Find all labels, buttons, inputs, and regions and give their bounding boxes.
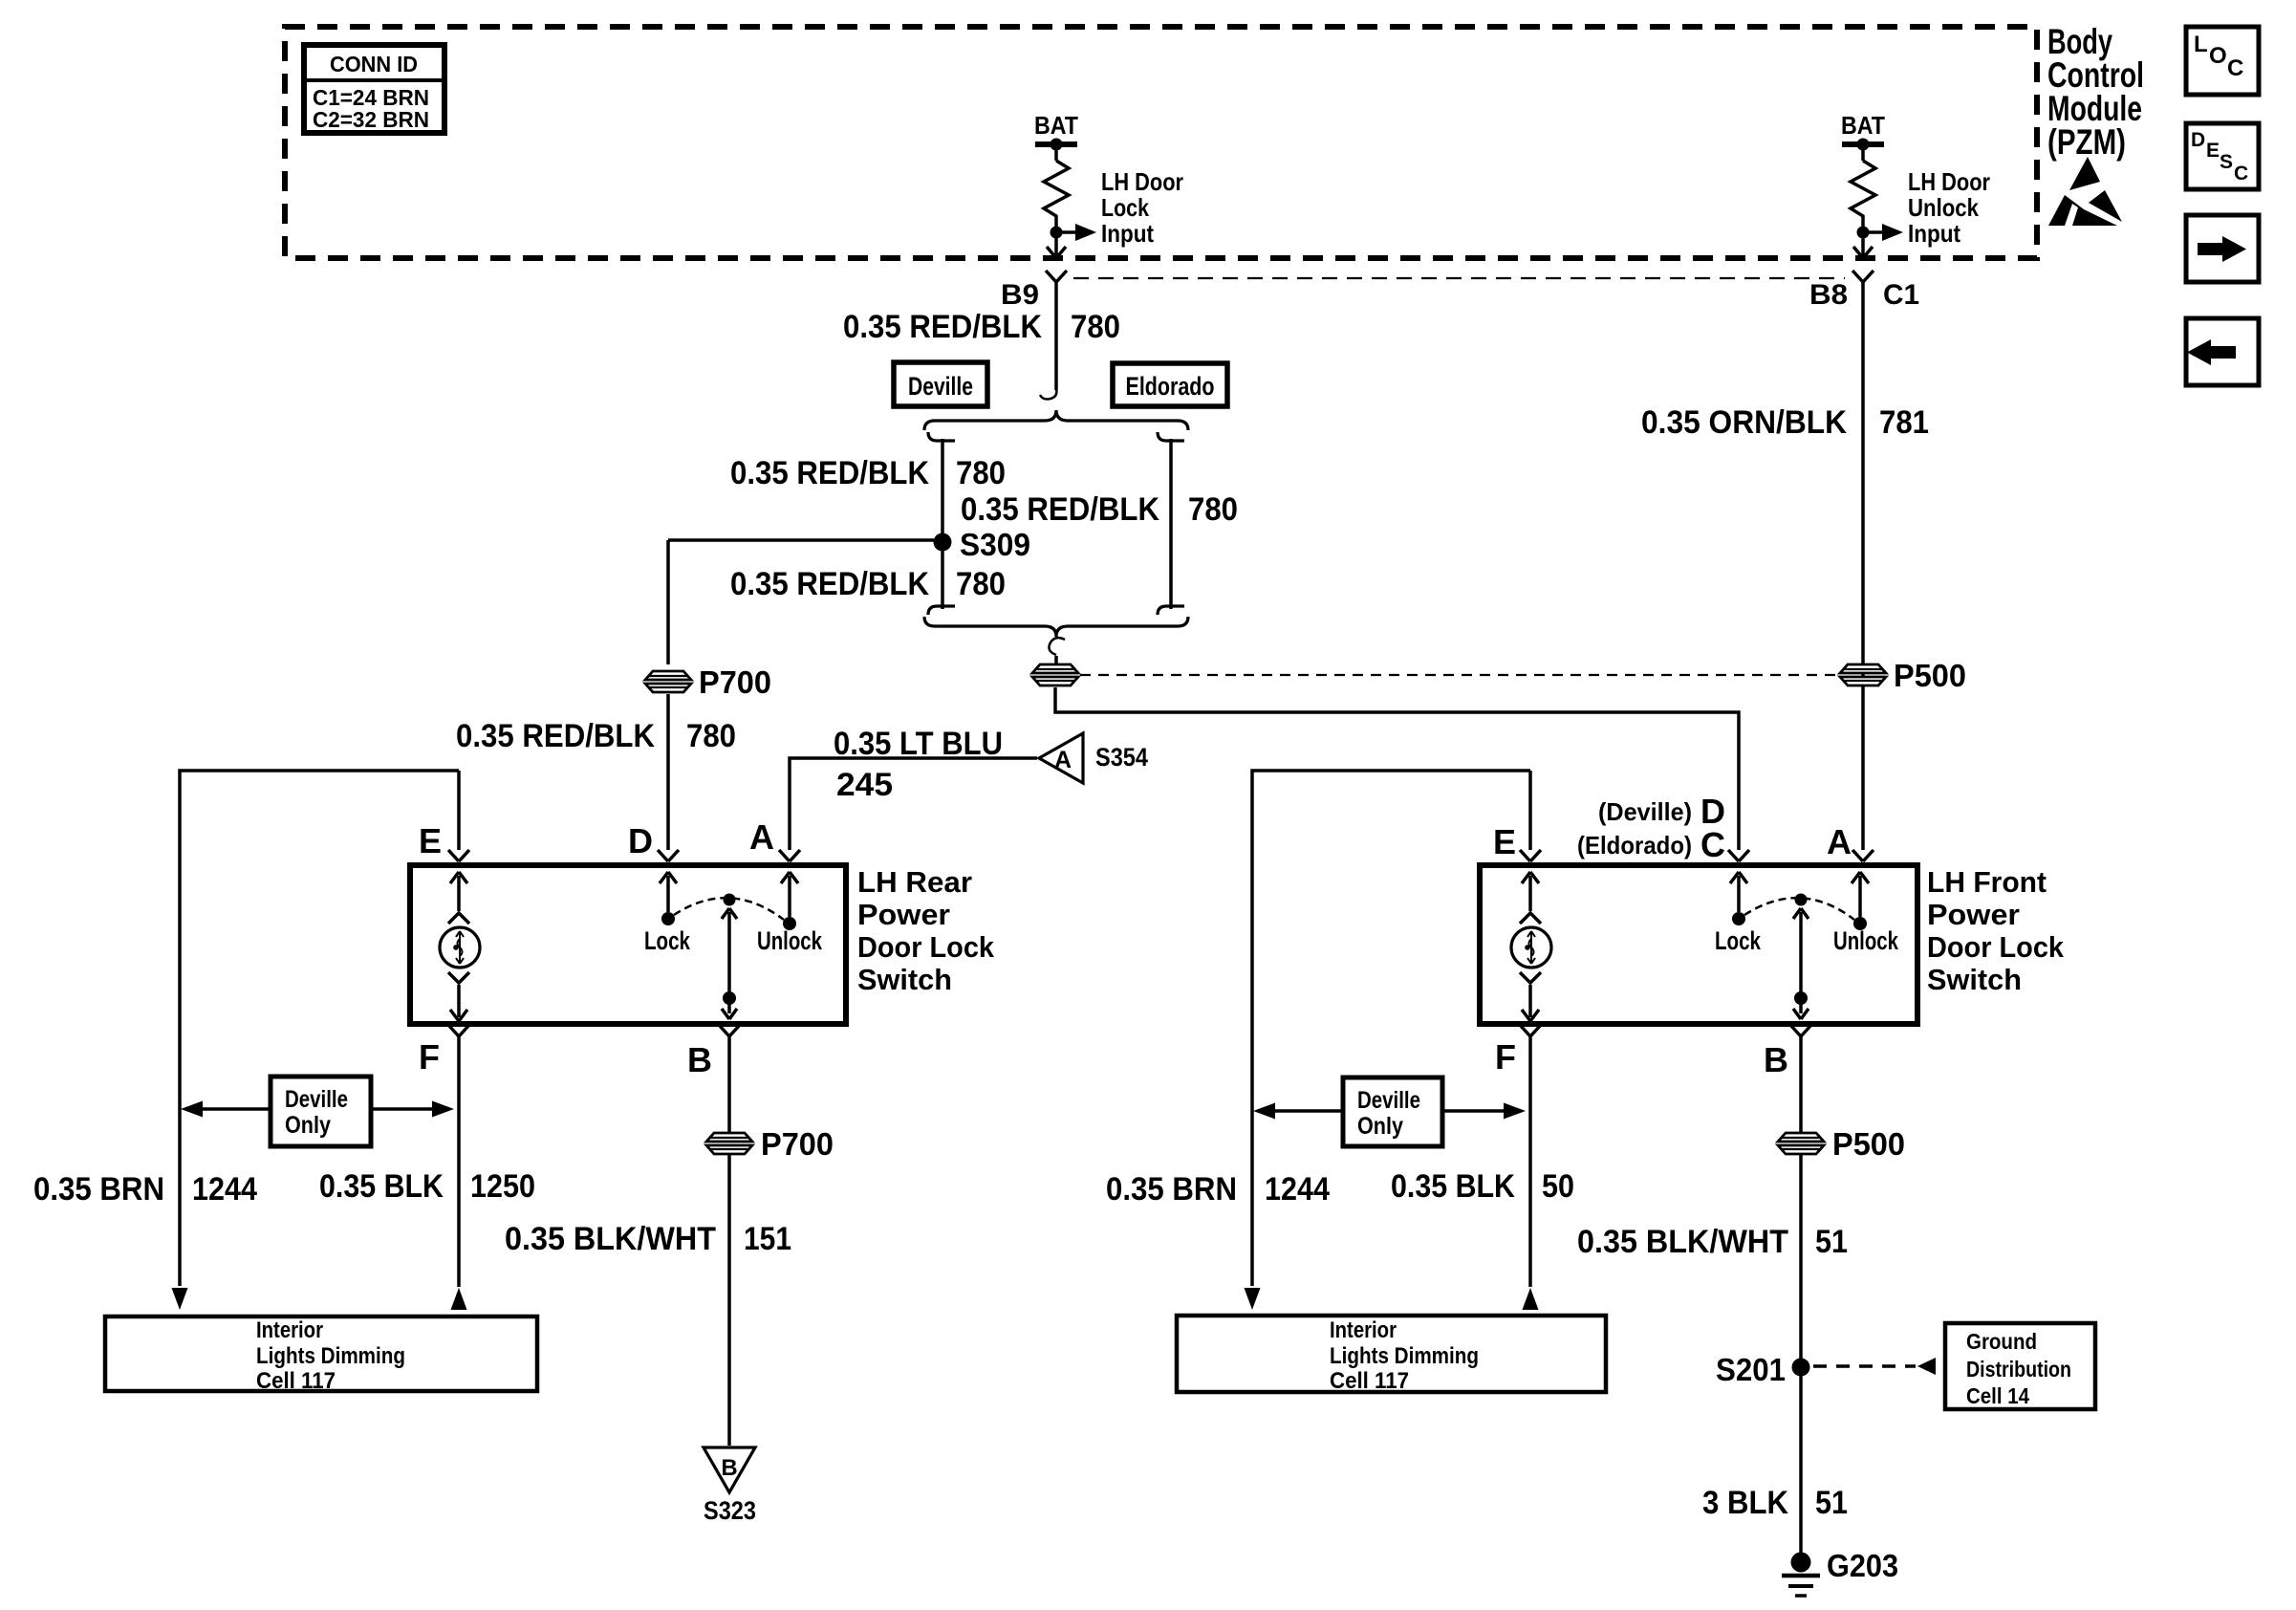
svg-text:S309: S309 bbox=[960, 527, 1030, 562]
wire from center connector down and right to front switch pin D/C bbox=[1055, 687, 1739, 850]
top option brace bbox=[924, 410, 1188, 430]
LH Rear switch: pin E female connector bbox=[448, 850, 469, 861]
rear pin F wire (0.35 BLK 1250) bbox=[457, 1036, 461, 1287]
svg-text:E: E bbox=[1493, 822, 1516, 861]
svg-text:O: O bbox=[2209, 43, 2227, 69]
LH Front Power Door Lock Switch box bbox=[1480, 865, 1917, 1024]
rear switch pole dashed travel arc bbox=[674, 898, 784, 920]
LH Rear Power Door Lock Switch box bbox=[410, 865, 846, 1024]
junction dot at resistor bottom (left) bbox=[1051, 227, 1063, 239]
svg-text:BAT: BAT bbox=[1034, 111, 1078, 140]
Body Control Module (PZM) dashed outline box bbox=[285, 27, 2037, 258]
Interior Lights Dimming Cell 117 box (front) bbox=[1177, 1316, 1606, 1394]
svg-text:50: 50 bbox=[1542, 1168, 1574, 1205]
svg-text:P700: P700 bbox=[699, 664, 771, 700]
arrow to LH Door Unlock Input bbox=[1863, 230, 1882, 234]
wire P500 to splice S201 (0.35 BLK/WHT 51) bbox=[1799, 1155, 1803, 1359]
svg-text:E: E bbox=[2206, 140, 2220, 162]
svg-text:S323: S323 bbox=[704, 1496, 756, 1525]
switch title (rear) bbox=[857, 865, 995, 996]
up arrowhead on F wire (front) bbox=[1523, 1288, 1539, 1310]
svg-text:Deville: Deville bbox=[908, 372, 973, 401]
svg-text:0.35 BLK/WHT: 0.35 BLK/WHT bbox=[505, 1221, 716, 1257]
LH Door Unlock Input text bbox=[1908, 167, 1990, 248]
dashed mate line from center connector to P500 bbox=[1080, 674, 1839, 676]
svg-text:Door Lock: Door Lock bbox=[1927, 930, 2065, 964]
svg-text:B: B bbox=[721, 1455, 737, 1481]
svg-text:Lock: Lock bbox=[1101, 193, 1149, 222]
svg-text:0.35 RED/BLK: 0.35 RED/BLK bbox=[456, 718, 655, 754]
rear pole arm (up arrow, junction dot, down arrow to pin B) bbox=[722, 908, 737, 1019]
Ground Distribution Cell 14 box bbox=[1945, 1323, 2095, 1409]
svg-text:151: 151 bbox=[744, 1221, 791, 1257]
rear Unlock contact dot bbox=[783, 917, 796, 930]
front pin F female connector below box bbox=[1520, 1025, 1541, 1036]
down arrowhead into Interior Lights Dimming bbox=[172, 1288, 188, 1310]
svg-text:0.35 RED/BLK: 0.35 RED/BLK bbox=[730, 566, 929, 602]
svg-text:Interior: Interior bbox=[256, 1317, 323, 1343]
LH Rear switch: pin A female connector bbox=[779, 850, 800, 861]
svg-text:Only: Only bbox=[1357, 1113, 1403, 1140]
up arrowhead on F wire bbox=[451, 1288, 467, 1310]
svg-text:A: A bbox=[1054, 747, 1072, 773]
option wire with splice S309 (0.35 RED/BLK 780) bbox=[941, 439, 944, 609]
svg-text:S354: S354 bbox=[1095, 743, 1148, 772]
svg-text:Switch: Switch bbox=[857, 963, 952, 996]
svg-text:0.35 BLK: 0.35 BLK bbox=[1391, 1168, 1515, 1205]
svg-text:1244: 1244 bbox=[1265, 1171, 1330, 1207]
svg-text:Lock: Lock bbox=[1715, 926, 1762, 955]
svg-text:Input: Input bbox=[1908, 219, 1960, 248]
svg-text:Unlock: Unlock bbox=[1908, 193, 1979, 222]
rear lamp connector chevron lower bbox=[448, 972, 469, 983]
svg-text:LH Rear: LH Rear bbox=[857, 865, 972, 899]
curl at wire end above brace bbox=[1040, 388, 1056, 400]
thin dashed connector-face line below PZM box bbox=[1073, 277, 1845, 279]
splice S201 dot bbox=[1792, 1359, 1810, 1377]
open down arrow to pin B9 bbox=[1047, 238, 1066, 258]
wire B9 to option brace (0.35 RED/BLK 780) bbox=[1054, 282, 1058, 390]
rear lamp connector chevron upper bbox=[448, 913, 469, 924]
front pole pivot dot bbox=[1795, 894, 1808, 906]
Deville option flag box bbox=[894, 362, 987, 406]
wire down to P700 bbox=[666, 540, 670, 664]
rear lamp feed up arrow (pin E inside) bbox=[450, 872, 467, 911]
svg-text:780: 780 bbox=[956, 455, 1006, 491]
svg-text:C: C bbox=[2227, 55, 2243, 81]
front interior-lights loop wire (0.35 BRN 1244) bbox=[1252, 771, 1530, 1286]
wire S309 to P700 drop (horizontal) bbox=[668, 538, 942, 542]
inline connector (center, mates P700/P500) bbox=[1032, 664, 1078, 685]
rear lamp ground down arrow bbox=[450, 985, 467, 1021]
wire 0.35 LT BLU 245 to rear switch pin A bbox=[790, 758, 1037, 850]
svg-text:L: L bbox=[2194, 32, 2208, 57]
svg-text:Unlock: Unlock bbox=[757, 926, 823, 955]
splice reference triangle A S354 bbox=[1039, 733, 1083, 783]
front switch pole dashed travel arc bbox=[1744, 898, 1854, 920]
svg-text:0.35 RED/BLK: 0.35 RED/BLK bbox=[961, 491, 1159, 528]
svg-text:C2=32 BRN: C2=32 BRN bbox=[313, 107, 429, 132]
svg-text:3 BLK: 3 BLK bbox=[1702, 1485, 1788, 1521]
arrow to LH Door Lock Input bbox=[1056, 230, 1075, 234]
svg-text:0.35 RED/BLK: 0.35 RED/BLK bbox=[843, 309, 1042, 345]
Deville option bracket (left) bbox=[928, 432, 955, 615]
svg-text:780: 780 bbox=[686, 718, 736, 754]
BAT bus bar with junction dot (right) bbox=[1842, 141, 1884, 147]
Body Control Module (PZM) title text bbox=[2047, 22, 2144, 162]
svg-text:Deville: Deville bbox=[1357, 1087, 1420, 1114]
svg-text:BAT: BAT bbox=[1841, 111, 1885, 140]
front pole junction dot bbox=[1794, 991, 1808, 1005]
rear Lock contact dot bbox=[661, 912, 675, 925]
svg-text:B9: B9 bbox=[1001, 279, 1039, 311]
inline connector P700 (top left, on RED/BLK wire) bbox=[645, 671, 691, 692]
front pin E wire from loop bbox=[1528, 771, 1532, 850]
svg-text:0.35 BRN: 0.35 BRN bbox=[33, 1171, 164, 1207]
svg-text:0.35 RED/BLK: 0.35 RED/BLK bbox=[730, 455, 929, 491]
svg-text:P500: P500 bbox=[1832, 1126, 1905, 1162]
LH Front switch: pin D/C female connector bbox=[1728, 850, 1749, 861]
pin B9 female connector bbox=[1046, 271, 1067, 282]
Deville Only span arrows (front) bbox=[1273, 1109, 1507, 1113]
ESD sensitive device symbol bbox=[2048, 157, 2122, 226]
svg-text:Lock: Lock bbox=[644, 926, 691, 955]
pin B8 female connector bbox=[1852, 271, 1874, 282]
front pin B wire to P500 bbox=[1799, 1036, 1803, 1132]
svg-text:Only: Only bbox=[285, 1112, 331, 1139]
rear illumination lamp bbox=[440, 927, 480, 968]
svg-text:Ground: Ground bbox=[1966, 1329, 2037, 1354]
wire P700 to rear switch pin D (0.35 RED/BLK 780) bbox=[666, 694, 670, 850]
svg-text:780: 780 bbox=[1188, 491, 1238, 528]
front pin F wire (0.35 BLK 50) bbox=[1528, 1036, 1532, 1287]
svg-text:781: 781 bbox=[1879, 404, 1929, 441]
front Unlock contact arrow bbox=[1852, 872, 1869, 917]
svg-text:LH Door: LH Door bbox=[1908, 167, 1990, 196]
svg-text:D: D bbox=[628, 821, 653, 860]
svg-text:B: B bbox=[1764, 1040, 1788, 1079]
splice S309 dot bbox=[934, 533, 952, 552]
LH Front switch: pin E female connector bbox=[1520, 850, 1541, 861]
svg-text:780: 780 bbox=[1071, 309, 1120, 345]
Eldorado option flag box bbox=[1113, 363, 1227, 406]
front Lock contact dot bbox=[1732, 912, 1745, 925]
wire from BAT bar to resistor bbox=[1054, 144, 1058, 161]
svg-text:Switch: Switch bbox=[1927, 963, 2022, 996]
open down arrow to pin B8 bbox=[1853, 238, 1873, 258]
svg-text:1244: 1244 bbox=[192, 1171, 257, 1207]
resistor (LH Door Lock Input pull-up, left) bbox=[1044, 161, 1069, 229]
svg-text:Cell 117: Cell 117 bbox=[256, 1368, 336, 1394]
svg-text:Cell 117: Cell 117 bbox=[1330, 1368, 1409, 1394]
rear pin E wire from loop bbox=[457, 771, 461, 850]
svg-text:1250: 1250 bbox=[470, 1168, 535, 1205]
wire S201 to ground G203 (3 BLK 51) bbox=[1799, 1376, 1803, 1555]
svg-text:Door Lock: Door Lock bbox=[857, 930, 995, 964]
Eldorado option bracket (right) bbox=[1158, 432, 1184, 615]
down arrowhead into Interior Lights Dimming (front) bbox=[1245, 1288, 1261, 1310]
svg-text:Power: Power bbox=[857, 898, 950, 931]
svg-text:(PZM): (PZM) bbox=[2047, 122, 2126, 162]
front pin B female connector below box bbox=[1790, 1025, 1811, 1036]
left arrow sidebar box bbox=[2186, 318, 2259, 385]
front Unlock contact dot bbox=[1853, 917, 1867, 930]
svg-text:Eldorado: Eldorado bbox=[1126, 372, 1215, 401]
svg-text:Lights Dimming: Lights Dimming bbox=[1330, 1343, 1479, 1369]
front lamp connector chevron upper bbox=[1520, 913, 1541, 924]
splice reference triangle B S323 bbox=[704, 1447, 755, 1492]
rear pole pivot dot bbox=[724, 894, 736, 906]
svg-text:0.35 BLK: 0.35 BLK bbox=[319, 1168, 444, 1205]
svg-text:Cell 14: Cell 14 bbox=[1966, 1383, 2029, 1408]
svg-text:D: D bbox=[2191, 129, 2205, 151]
front lamp feed up arrow (pin E inside) bbox=[1522, 872, 1539, 911]
svg-text:CONN ID: CONN ID bbox=[330, 52, 418, 76]
junction dot at resistor bottom (right) bbox=[1857, 227, 1870, 239]
svg-text:Deville: Deville bbox=[285, 1086, 348, 1113]
ground G203 symbol bbox=[1782, 1553, 1820, 1597]
wire from brace to inline connector bbox=[1054, 656, 1058, 664]
svg-text:Input: Input bbox=[1101, 219, 1154, 248]
svg-text:LH Door: LH Door bbox=[1101, 167, 1183, 196]
LH Rear switch: pin D female connector bbox=[658, 850, 679, 861]
inline connector P500 (bottom, on BLK/WHT wire) bbox=[1778, 1133, 1824, 1154]
svg-text:B: B bbox=[687, 1040, 712, 1079]
rear pin F female connector below box bbox=[448, 1025, 469, 1036]
svg-text:51: 51 bbox=[1815, 1224, 1848, 1260]
rear pole junction dot bbox=[723, 991, 736, 1005]
svg-text:Distribution: Distribution bbox=[1966, 1357, 2071, 1382]
svg-text:P500: P500 bbox=[1894, 658, 1966, 693]
reference arrowhead at Ground Distribution bbox=[1917, 1358, 1936, 1375]
rear pin B female connector below box bbox=[719, 1025, 740, 1036]
front pole arm (up arrow, junction dot, down arrow to pin B) bbox=[1793, 908, 1809, 1019]
LOC sidebar box bbox=[2186, 27, 2259, 95]
svg-text:0.35 BLK/WHT: 0.35 BLK/WHT bbox=[1577, 1224, 1788, 1260]
Deville Only box (front) bbox=[1343, 1077, 1442, 1146]
svg-text:245: 245 bbox=[836, 767, 893, 803]
CONN ID table box bbox=[304, 45, 444, 133]
inline connector P500 (top right, on ORN/BLK wire) bbox=[1840, 664, 1886, 685]
LH Door Lock Input text bbox=[1101, 167, 1183, 248]
Deville Only box (rear) bbox=[271, 1077, 371, 1146]
rear Unlock contact arrow bbox=[781, 872, 798, 917]
front Lock contact arrow bbox=[1730, 872, 1747, 912]
svg-text:B8: B8 bbox=[1809, 279, 1848, 311]
bottom option brace bbox=[924, 617, 1188, 637]
DESC sidebar box bbox=[2186, 123, 2259, 189]
svg-text:C: C bbox=[1700, 825, 1725, 864]
rear interior-lights loop wire (0.35 BRN 1244) bbox=[180, 771, 459, 1286]
rear pin B wire to P700 bbox=[727, 1036, 731, 1132]
svg-text:A: A bbox=[749, 817, 774, 857]
wire from BAT bar to resistor (right) bbox=[1861, 144, 1865, 161]
svg-text:F: F bbox=[419, 1037, 440, 1077]
front illumination lamp bbox=[1511, 927, 1551, 968]
svg-text:E: E bbox=[419, 821, 442, 860]
svg-text:51: 51 bbox=[1815, 1485, 1848, 1521]
front lamp ground down arrow bbox=[1522, 985, 1539, 1021]
svg-text:(Eldorado): (Eldorado) bbox=[1577, 831, 1692, 859]
curl below bottom brace bbox=[1049, 638, 1065, 655]
svg-text:G203: G203 bbox=[1827, 1548, 1898, 1583]
resistor (LH Door Unlock Input pull-up, right) bbox=[1851, 161, 1875, 229]
svg-text:Power: Power bbox=[1927, 898, 2020, 931]
svg-text:S: S bbox=[2220, 151, 2233, 173]
switch title (front) bbox=[1927, 865, 2065, 996]
svg-text:P700: P700 bbox=[761, 1126, 834, 1162]
svg-text:A: A bbox=[1827, 822, 1852, 861]
svg-text:C1: C1 bbox=[1883, 279, 1919, 311]
front lamp connector chevron lower bbox=[1520, 972, 1541, 983]
svg-text:(Deville): (Deville) bbox=[1598, 797, 1692, 826]
svg-text:0.35 BRN: 0.35 BRN bbox=[1106, 1171, 1237, 1207]
svg-text:LH Front: LH Front bbox=[1927, 865, 2047, 899]
BAT bus bar with junction dot (left) bbox=[1035, 141, 1077, 147]
Deville Only span arrows (rear) bbox=[201, 1107, 436, 1111]
svg-text:S201: S201 bbox=[1716, 1352, 1786, 1387]
svg-text:0.35 ORN/BLK: 0.35 ORN/BLK bbox=[1641, 404, 1847, 441]
svg-text:F: F bbox=[1495, 1037, 1516, 1077]
svg-text:Interior: Interior bbox=[1330, 1317, 1397, 1343]
wire B8/C1 down to LH front switch pin A (0.35 ORN/BLK 781) bbox=[1861, 282, 1865, 850]
LH Front switch: pin A female connector bbox=[1852, 850, 1874, 861]
svg-text:780: 780 bbox=[956, 566, 1006, 602]
inline connector P700 (bottom, on BLK/WHT wire) bbox=[706, 1133, 752, 1154]
svg-text:0.35 LT BLU: 0.35 LT BLU bbox=[834, 726, 1003, 762]
svg-text:C: C bbox=[2234, 163, 2248, 185]
right arrow sidebar box bbox=[2186, 215, 2259, 282]
dashed reference line to Ground Distribution bbox=[1813, 1364, 1916, 1368]
Interior Lights Dimming Cell 117 box (rear) bbox=[105, 1316, 537, 1394]
svg-text:Unlock: Unlock bbox=[1833, 926, 1899, 955]
svg-text:Lights Dimming: Lights Dimming bbox=[256, 1343, 405, 1369]
rear Lock contact arrow bbox=[660, 872, 677, 912]
wire P700 to splice triangle (0.35 BLK/WHT 151) bbox=[727, 1155, 731, 1446]
Eldorado option wire (0.35 RED/BLK 780) bbox=[1169, 439, 1173, 609]
